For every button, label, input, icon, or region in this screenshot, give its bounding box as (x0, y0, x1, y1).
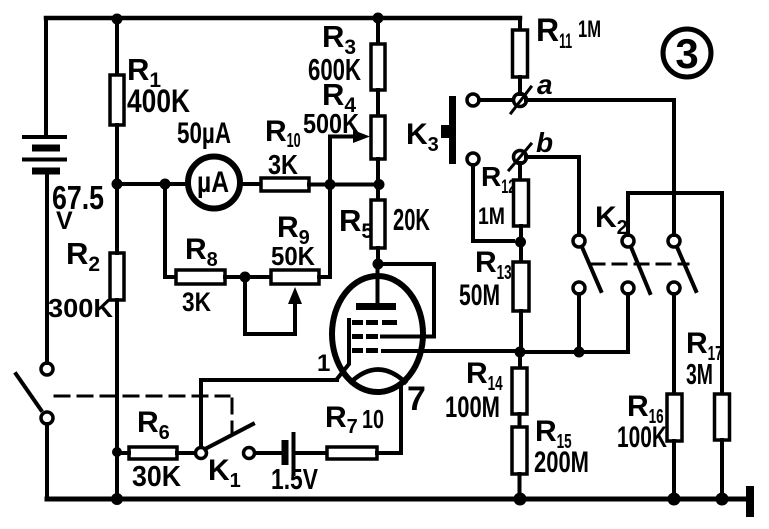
wire R3 top (376, 18, 380, 44)
resistor R1 (110, 75, 124, 125)
svg-text:200M: 200M (534, 446, 589, 479)
switch K2 pole2 (622, 235, 650, 294)
wiper arrow R4 (330, 130, 370, 184)
switch K2 pole3 (668, 235, 696, 294)
tube envelope V1 (332, 276, 423, 392)
node bottom rail left (111, 493, 123, 505)
svg-text:3K: 3K (182, 287, 211, 317)
svg-text:300K: 300K (48, 293, 113, 323)
resistor R15 (512, 427, 527, 474)
label R1 400K (127, 52, 190, 119)
node R3 top rail (373, 13, 384, 24)
wire R5 bottom (376, 248, 380, 264)
wire R14 to R15 (518, 414, 522, 427)
grid row 3 (352, 348, 378, 353)
node R16 rail (668, 493, 681, 506)
wire R12 bottom (519, 226, 523, 242)
label R14 100M (445, 357, 503, 424)
resistor R11 (513, 30, 528, 77)
label R4 500K (303, 77, 359, 139)
resistor R3 (371, 44, 385, 90)
label R12 1M (478, 161, 515, 230)
resistor R8 (176, 270, 225, 284)
label R8 3K (182, 233, 218, 317)
node R1 top rail (112, 14, 123, 25)
label R3 600K (308, 19, 361, 87)
contact b left (467, 153, 479, 165)
label R13 50M (459, 246, 512, 312)
node R15 rail (514, 493, 527, 506)
resistor R16 (667, 394, 682, 441)
label R16 100K (617, 390, 667, 454)
svg-text:100M: 100M (445, 391, 500, 424)
svg-text:10: 10 (362, 404, 384, 434)
wire R16 bottom (672, 441, 676, 499)
wire K2 pole2 to R17 (628, 193, 722, 394)
switch K1 (196, 424, 255, 459)
svg-text:400K: 400K (127, 83, 190, 119)
wire pin7 cathode lead (399, 384, 403, 453)
wire R17 bottom (720, 440, 724, 499)
svg-text:a: a (537, 69, 553, 100)
plate to grid2 loop (378, 264, 435, 337)
wire R2 leads (115, 184, 119, 499)
wire top rail (46, 16, 520, 21)
node R17 rail (716, 493, 729, 506)
wire R15 bottom (518, 474, 522, 499)
dashed link switch to K1 (55, 396, 232, 432)
node wiper loop tap (240, 272, 251, 283)
node R4-R5 junction (374, 179, 385, 190)
label a (537, 69, 553, 100)
wire K1 to battery (255, 451, 282, 455)
svg-text:3: 3 (675, 30, 698, 77)
grid1 bracket lead (337, 320, 349, 379)
svg-text:1M: 1M (578, 16, 601, 43)
resistor R14 (512, 368, 527, 414)
resistor R10 (261, 178, 309, 191)
label R11 1M (536, 12, 601, 53)
label b (536, 127, 553, 158)
wire R1 bottom (115, 125, 119, 184)
battery B2 1.5V (285, 432, 294, 476)
svg-text:30K: 30K (132, 461, 181, 493)
wire R11 bottom (518, 77, 522, 94)
wire R13 top (519, 242, 523, 262)
cathode arc (351, 370, 405, 383)
svg-text:500K: 500K (303, 108, 359, 139)
wire R1 top (115, 18, 119, 75)
label R15 200M (534, 415, 589, 479)
svg-text:3K: 3K (268, 149, 298, 180)
wire K1 riser (199, 380, 203, 447)
svg-text:50µA: 50µA (177, 117, 231, 150)
wiper loop R9 (245, 277, 302, 334)
svg-text:20K: 20K (393, 202, 430, 237)
wire bottom rail (47, 497, 751, 502)
svg-text:50K: 50K (271, 241, 315, 271)
svg-text:V: V (56, 207, 73, 235)
node grid rail (515, 347, 526, 358)
wire R8 to R9 (225, 275, 271, 279)
wire R3 to R4 (376, 90, 380, 116)
pushbutton K3 bar (441, 96, 456, 164)
resistor R6 (129, 447, 177, 459)
wire R13 bottom (519, 311, 523, 352)
resistor R2 (110, 253, 124, 300)
contact a left (467, 94, 479, 106)
resistor R13 (513, 262, 529, 311)
svg-text:3M: 3M (686, 359, 713, 391)
svg-text:µA: µA (197, 166, 229, 199)
svg-text:1.5V: 1.5V (271, 464, 319, 496)
rotary contact a (511, 87, 531, 113)
wire R11 top (518, 18, 522, 30)
wire K2 pole3 bottom to R16 (672, 294, 676, 394)
wire R14 top (518, 352, 522, 368)
wire pin1 to K1 (201, 378, 337, 382)
svg-text:1: 1 (317, 350, 330, 377)
node R12-R13 (515, 237, 526, 248)
wire R8 branch vertical (165, 184, 176, 277)
wire R12 top (518, 163, 522, 180)
terminal bar bottom right (746, 486, 754, 517)
potentiometer R4 (371, 116, 385, 159)
wire R6 leads (117, 451, 195, 455)
wire switch to bottom rail (45, 424, 49, 499)
plate lead (376, 264, 380, 304)
wire battery bottom lead (45, 175, 49, 363)
figure number 3 (663, 29, 711, 77)
node R10-R9-wiper junction (325, 179, 336, 190)
label R10 3K (265, 115, 301, 180)
wire battery top lead (44, 18, 48, 135)
label R17 3M (686, 327, 723, 391)
resistor R12 (514, 180, 529, 226)
rotary contact b (509, 144, 531, 170)
wire R7 to pin7 (377, 451, 401, 455)
label R2 300K (48, 236, 113, 323)
label 3 (675, 30, 698, 77)
resistor R7 (327, 447, 377, 459)
dashed link K2 (591, 263, 688, 266)
svg-text:100K: 100K (617, 421, 667, 454)
svg-text:1M: 1M (478, 203, 505, 230)
plate bar (356, 303, 396, 310)
node R1-meter junction (112, 179, 123, 190)
wire R9 right up to node (319, 184, 330, 277)
label pin 1 (317, 350, 330, 377)
node R6 tap (112, 447, 122, 457)
wire a to K2 right pole (526, 100, 674, 235)
wire R10 right (309, 183, 378, 187)
svg-text:b: b (536, 127, 553, 158)
label K2 (595, 201, 628, 239)
wire R4 to R5 (376, 159, 380, 200)
resistor R5 (371, 200, 385, 248)
switch K2 pole1 (573, 235, 601, 294)
label R7 10 (325, 401, 384, 438)
resistor R17 (715, 394, 730, 440)
wire grid3 to R13 node (383, 349, 520, 353)
wire a gap (479, 98, 513, 102)
node R8 branch tap (160, 179, 171, 190)
node plate junction (373, 259, 384, 270)
label pin 7 (407, 380, 426, 418)
label 1.5V (271, 464, 319, 496)
node pole1 rail (574, 347, 585, 358)
wire b to K2 left pole (526, 157, 579, 235)
label R5 20K (339, 202, 430, 243)
wire meter to R10 (243, 182, 261, 186)
grid row 2 (352, 334, 378, 339)
svg-text:50M: 50M (459, 279, 500, 312)
potentiometer R9 (271, 270, 319, 284)
label K3 (406, 118, 439, 156)
label R9 50K (271, 211, 315, 271)
meter uA (188, 157, 240, 209)
label K1 (208, 454, 241, 492)
wire rail to pole2 bottom (520, 294, 628, 352)
wire meter row left (117, 182, 185, 186)
label 67.5 V (52, 179, 104, 235)
wire K2 pole1 bottom (577, 294, 581, 352)
switch S power (16, 363, 53, 424)
grid row 1 (352, 320, 397, 325)
wire R12 left loop (473, 165, 513, 241)
label 50uA (177, 117, 231, 150)
battery B1 67.5V (22, 137, 67, 171)
wire battery to R7 (296, 451, 327, 455)
label R6 30K (132, 406, 181, 493)
svg-text:7: 7 (407, 380, 426, 418)
label uA inside meter (197, 166, 229, 199)
